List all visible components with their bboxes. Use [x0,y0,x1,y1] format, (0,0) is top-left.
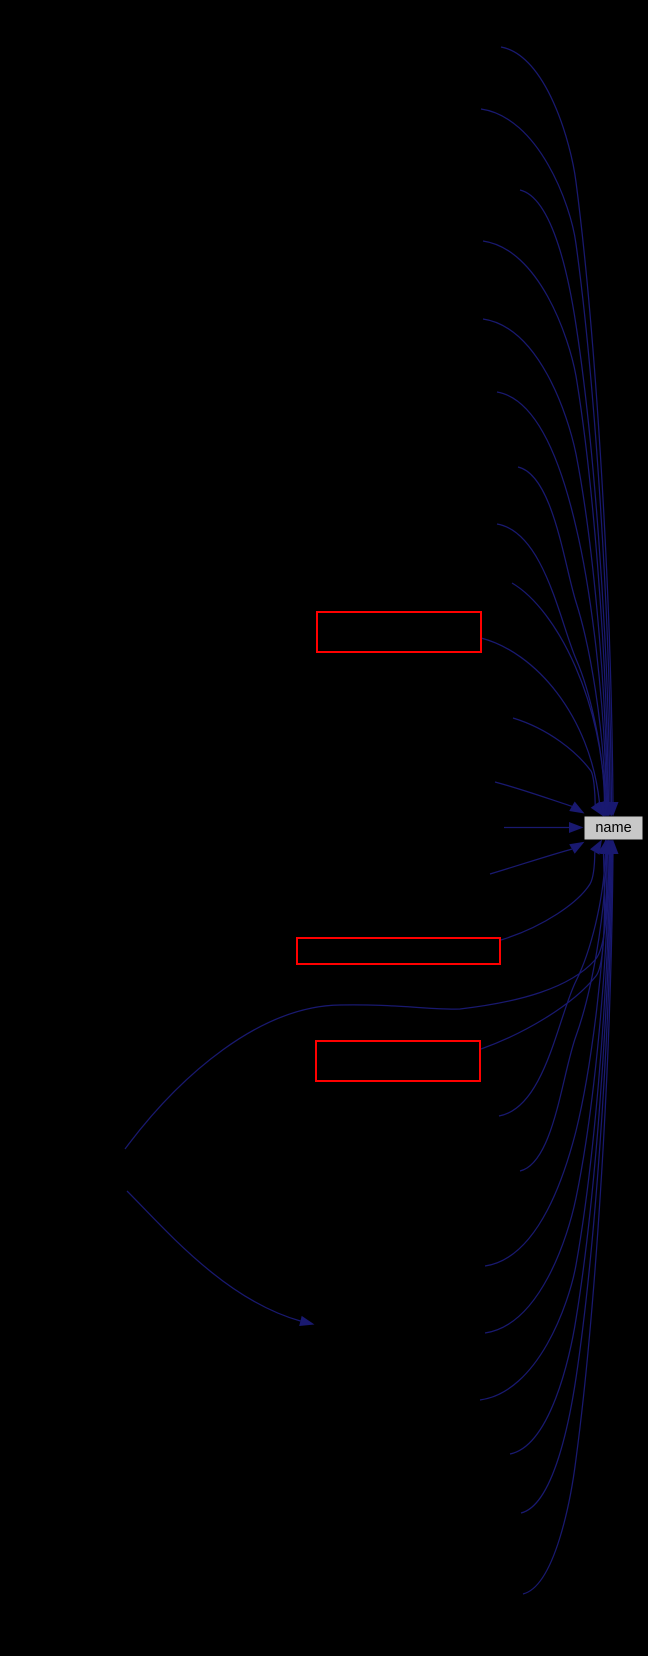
edge caller7 to name [518,467,606,804]
edge caller16 to name [481,854,604,1049]
edge caller15 to name [501,852,595,940]
edge farleft to midnode [127,1191,300,1321]
node name (current function) [585,817,643,840]
edge farleft to name (S-curve) [125,854,607,1149]
node redbox1 (truncated caller) [317,612,481,652]
edge caller3 to name [520,190,610,804]
edge caller8 to name [497,524,605,804]
edge caller6 to name [497,392,607,804]
edge caller18 to name [520,852,607,1171]
edge caller5 to name [483,319,608,804]
edge caller4 to name [483,241,609,804]
node redbox2 (truncated caller) [297,938,500,964]
edge caller19 to name [485,852,608,1266]
edge caller22 to name [510,852,611,1454]
edge caller2 to name [481,109,612,804]
edge caller13 to name (left, horizontal) [504,827,572,829]
edge caller10 to name [481,638,600,803]
edge caller20 to name [485,852,609,1333]
edge caller11 to name [513,718,595,805]
edge caller14 to name (bottom-left corner) [490,849,572,874]
edge caller1 to name [501,47,613,804]
edge caller12 to name (top-left corner) [495,782,572,806]
edge caller24 to name [523,852,613,1594]
svg-text:name: name [595,820,631,836]
edge caller21 to name [480,852,610,1400]
edge caller17 to name [499,852,606,1116]
edge caller9 to name [512,583,605,804]
node redbox3 (truncated caller) [316,1041,480,1081]
edge caller23 to name [521,852,612,1513]
